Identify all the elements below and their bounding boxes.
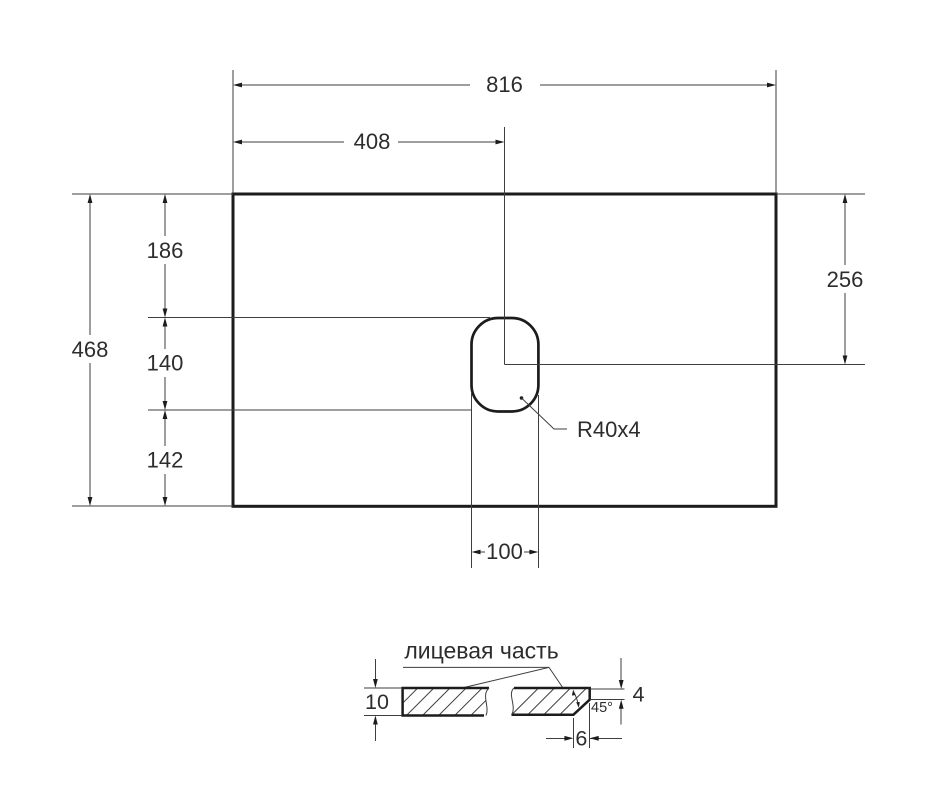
dim 10 line: [374, 659, 376, 741]
svg-text:408: 408: [354, 129, 391, 154]
ext line top-left vertical: [232, 70, 234, 193]
svg-text:140: 140: [147, 351, 184, 376]
dim 4 arrow up: [619, 700, 624, 709]
section left slab break line: [486, 688, 489, 716]
dim 468 text: [72, 337, 109, 362]
leader dot R40x4: [520, 396, 524, 400]
angle 45 arc: [572, 690, 580, 708]
dim 142 arrow up: [163, 410, 168, 419]
label R40x4: [577, 417, 641, 442]
dim 10 arrow down: [373, 679, 378, 688]
svg-text:10: 10: [365, 690, 389, 714]
dim 6 arrow right: [564, 736, 573, 741]
svg-text:142: 142: [147, 448, 184, 473]
dim 186 line: [164, 202, 166, 310]
dim 408 line: [241, 141, 496, 143]
dim 816 line: [241, 84, 768, 86]
ext line left bottom horizontal: [72, 505, 233, 507]
dim 256 text: [827, 267, 864, 292]
dim 408 arrow right: [496, 140, 505, 145]
section right slab outline: [512, 688, 590, 715]
svg-text:816: 816: [486, 72, 523, 97]
dim 100 arrow right: [529, 550, 538, 555]
label litsevaya chast: [404, 638, 558, 664]
svg-text:186: 186: [147, 238, 184, 263]
dim 142 text: [147, 448, 184, 473]
dim 256 line: [844, 202, 846, 357]
dim 140 arrow up: [163, 318, 168, 327]
dim 186 text: [147, 238, 184, 263]
ext line hole top horizontal: [148, 317, 490, 319]
dim 408 arrow left: [233, 140, 242, 145]
dim 256 arrow down: [843, 356, 848, 365]
dim 100 line: [480, 551, 530, 553]
ext line section 10 bottom: [364, 715, 402, 717]
svg-text:100: 100: [486, 539, 523, 564]
leader branch right: [549, 667, 563, 688]
dim 6 line: [546, 737, 622, 739]
ext line hole left vertical: [471, 392, 473, 568]
dim 142 line: [164, 418, 166, 498]
leader line R40x4: [522, 398, 568, 429]
dim 468 line: [89, 202, 91, 498]
dim 186 arrow down: [163, 309, 168, 318]
dim 6 text: [575, 727, 587, 751]
leader branch left: [464, 667, 549, 687]
ext line center vertical to hole center: [504, 127, 506, 365]
ext line section 10 top: [364, 687, 402, 689]
section right slab hatch: [497, 670, 621, 730]
svg-text:468: 468: [72, 337, 109, 362]
ext line right top horizontal: [776, 193, 865, 195]
svg-text:256: 256: [827, 267, 864, 292]
ext line top-right vertical: [775, 70, 777, 193]
ext line hole right vertical: [537, 395, 539, 568]
section left slab outline: [403, 688, 489, 716]
dim 468 arrow down: [88, 497, 93, 506]
dim 816 arrow left: [233, 83, 242, 88]
countertop outline: [233, 194, 776, 506]
dim 100 text: [486, 539, 523, 564]
dim 408 text: [354, 129, 391, 154]
dim 140 text: [147, 351, 184, 376]
dim 256 arrow up: [843, 194, 848, 203]
cutout hole R40: [472, 318, 539, 412]
ext line hole bottom horizontal: [148, 409, 471, 411]
section left slab hatch: [374, 672, 531, 732]
dim 6 arrow left: [590, 736, 599, 741]
dim 186 arrow up: [163, 194, 168, 203]
svg-text:R40x4: R40x4: [577, 417, 641, 442]
dim 142 arrow down: [163, 497, 168, 506]
dim 468 arrow up: [88, 194, 93, 203]
label 45deg: [591, 700, 613, 716]
svg-text:6: 6: [575, 727, 587, 751]
dim 4 text: [633, 683, 645, 707]
ext line section 6 right: [589, 703, 591, 748]
dim 816 text: [486, 72, 523, 97]
dim 4 arrow down: [619, 680, 624, 689]
section right slab break line: [511, 688, 514, 715]
ext line left top horizontal: [72, 193, 233, 195]
leader underline litsevaya: [403, 666, 549, 668]
svg-text:лицевая часть: лицевая часть: [404, 638, 558, 664]
dim 140 line: [164, 326, 166, 403]
svg-text:45°: 45°: [591, 700, 613, 716]
ext line section 4 bottom: [590, 699, 625, 701]
svg-text:4: 4: [633, 683, 645, 707]
dim 10 text: [365, 690, 389, 714]
ext line hole center horizontal: [505, 364, 866, 366]
dim 10 arrow up: [373, 716, 378, 725]
dim 140 arrow down: [163, 401, 168, 410]
dim 816 arrow right: [767, 83, 776, 88]
ext line section 4 top: [591, 688, 625, 690]
ext line section 6 left: [572, 718, 574, 748]
dim 100 arrow left: [472, 550, 481, 555]
dim 4 line: [620, 658, 622, 725]
